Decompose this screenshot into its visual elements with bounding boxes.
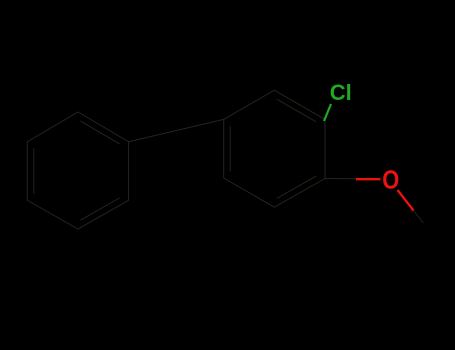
left ring inner double bond E3 (81, 198, 119, 220)
right ring inner double bond F2 (277, 99, 316, 121)
svg-text:O: O (382, 166, 399, 195)
methyl red half (398, 190, 414, 211)
svg-text:Cl: Cl (330, 80, 352, 105)
right benzene ring outer (224, 90, 325, 207)
right ring inner double bond F6 (229, 126, 231, 171)
left benzene ring outer (27, 112, 128, 229)
methyl dark half (414, 211, 424, 223)
left ring inner double bond E1 (81, 121, 120, 144)
connector bond (129, 119, 224, 141)
O red half bond (356, 178, 381, 180)
C4 to O dark half (325, 178, 356, 180)
right ring inner double bond F4 (277, 176, 316, 198)
Cl bond green (324, 104, 331, 121)
left ring inner double bond E5 (33, 149, 35, 193)
